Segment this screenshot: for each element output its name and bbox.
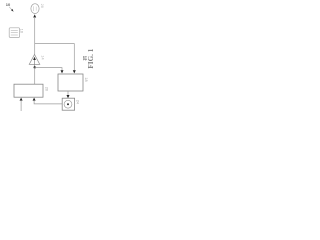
wire input arrow left into box 20 [20,98,23,111]
wire junction to box 22 input [35,68,64,74]
svg-text:FIG. 1: FIG. 1 [87,48,95,68]
block U1 (processor box, ref 20) [14,84,43,97]
transducer T2 (mic box with circle, ref 24) [62,98,74,110]
wire arrow inside amplifier [33,57,36,67]
wire junction down to box 20 [34,67,36,84]
wire lead arrow from 10 [9,7,13,12]
node J1 (junction dot) [34,66,36,68]
wire main vertical from transducer to amplifier [33,14,36,54]
block U2 (control box, ref 22) [58,74,83,91]
svg-text:16: 16 [20,29,24,33]
svg-text:20: 20 [45,87,49,91]
op-amp A1 (amplifier triangle, ref 14) [29,54,40,64]
svg-text:18: 18 [84,77,88,81]
svg-text:14: 14 [40,55,44,59]
svg-text:10: 10 [6,2,11,7]
svg-text:28: 28 [40,4,44,8]
wire feedback from box 24 into box 20 [33,98,63,104]
svg-text:24: 24 [75,100,79,104]
wire branch to box 22 [35,44,76,74]
wire from box 22 to box 24 [67,91,70,98]
battery B1 (striped box, ref 16) [9,28,19,38]
transducer T1 (oval speaker, ref 12) [31,4,39,14]
